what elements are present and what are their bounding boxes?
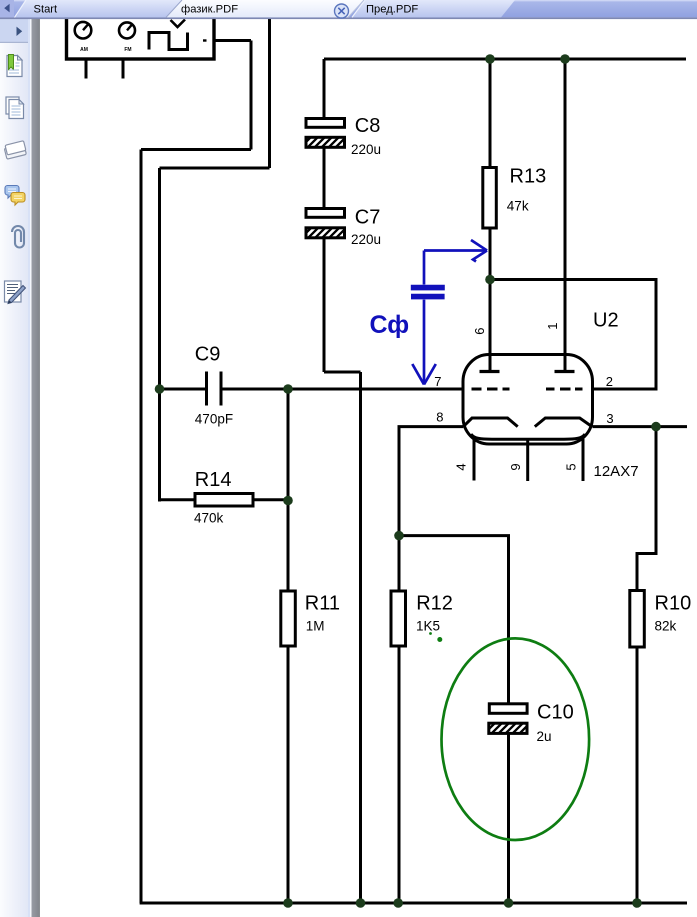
node rail-R10	[632, 898, 642, 908]
close button	[335, 4, 349, 18]
chevron mark	[171, 20, 186, 28]
wire R14 left	[160, 498, 196, 501]
wire R11 to rail	[287, 646, 290, 903]
svg-text:R11: R11	[305, 593, 340, 615]
plate bar triode B	[555, 370, 575, 373]
tube U2 envelope	[463, 355, 593, 445]
svg-text:220u: 220u	[351, 232, 381, 247]
svg-text:R12: R12	[416, 593, 453, 615]
node pin8-C10	[394, 531, 404, 541]
cathode triode B	[535, 418, 592, 427]
wire R12 to rail	[398, 646, 401, 903]
svg-text:8: 8	[436, 410, 443, 425]
blue capacitor plates	[411, 285, 445, 291]
resistor R11	[281, 591, 296, 646]
svg-text:2: 2	[606, 374, 613, 389]
node R13-pin6	[485, 275, 495, 285]
grid dashes triode A	[472, 388, 510, 391]
dash mark	[203, 39, 207, 41]
green ellipse annotation	[442, 638, 590, 840]
knob FM	[119, 22, 135, 38]
wire C9 left	[160, 388, 206, 391]
svg-text:9: 9	[508, 463, 523, 470]
svg-text:4: 4	[454, 463, 469, 470]
capacitor C7 plate top	[306, 209, 345, 218]
node pin3	[651, 422, 661, 432]
svg-text:фазик.PDF: фазик.PDF	[181, 4, 238, 16]
svg-text:C7: C7	[355, 206, 381, 228]
wire C8 to C7	[323, 148, 326, 209]
node rail-R13	[485, 54, 495, 64]
pin 3 wire	[593, 425, 688, 428]
svg-text:220u: 220u	[351, 142, 381, 157]
bottom rail	[140, 902, 687, 905]
icon pages	[6, 97, 24, 119]
svg-text:470pF: 470pF	[195, 412, 233, 427]
wire jog right	[324, 371, 361, 374]
pin 1 stem	[564, 59, 567, 370]
node rail-R12	[393, 898, 403, 908]
pin 8 wire	[399, 427, 463, 591]
wire C10 to rail	[507, 734, 510, 904]
resistor R12	[391, 591, 406, 646]
pin 6 stem	[489, 279, 492, 370]
capacitor C10 plate top	[489, 704, 527, 714]
svg-text:3: 3	[606, 411, 613, 426]
icon comments	[5, 186, 25, 206]
wire rail to R13	[489, 59, 492, 168]
svg-text:6: 6	[472, 327, 487, 334]
svg-text:R13: R13	[510, 165, 547, 187]
pin 9 lead	[526, 439, 529, 481]
icon paperclip	[12, 226, 24, 248]
green speck 2	[437, 637, 442, 642]
resistor R14	[195, 494, 253, 507]
node rail-C10	[504, 898, 514, 908]
node C9 right	[283, 384, 293, 394]
blue arrow to R13 node	[424, 249, 486, 252]
wire C7 down	[323, 238, 326, 372]
capacitor C10 plate hatched	[489, 723, 527, 733]
nav back button	[0, 0, 14, 17]
node rail-x360	[356, 898, 366, 908]
node C9 left	[155, 384, 165, 394]
svg-text:FM: FM	[124, 47, 131, 53]
wire pin3 to R10	[637, 427, 656, 591]
cathode triode A	[463, 418, 517, 427]
svg-text:R14: R14	[195, 469, 232, 491]
wire R14 right	[253, 498, 288, 501]
svg-text:1: 1	[545, 322, 560, 329]
node R14 right	[283, 496, 293, 506]
svg-text:1K5: 1K5	[416, 618, 440, 633]
wire box to corner	[214, 39, 251, 42]
svg-text:R10: R10	[655, 593, 692, 615]
wire rail to C8	[323, 59, 326, 119]
svg-text:470k: 470k	[194, 510, 224, 525]
svg-text:AM: AM	[80, 47, 88, 53]
svg-text:12AX7: 12AX7	[594, 463, 639, 480]
wire across y149.5	[141, 148, 251, 151]
svg-text:5: 5	[564, 463, 579, 470]
tab фазик.PDF active	[166, 0, 364, 17]
wire down x159.5	[158, 168, 161, 502]
tab Start	[15, 0, 185, 17]
blue wire down	[423, 251, 426, 285]
square-wave glyph	[149, 33, 188, 50]
svg-text:C10: C10	[537, 702, 574, 724]
wire node to C10	[399, 536, 509, 704]
U2 feedback wire	[490, 280, 656, 390]
resistor R13	[483, 168, 497, 229]
capacitor C9 plate 1	[205, 372, 208, 406]
svg-text:7: 7	[434, 374, 441, 389]
tuner box U?	[67, 0, 215, 59]
svg-text:Start: Start	[34, 4, 59, 16]
icon bookmarks	[7, 55, 22, 77]
wire R13 to node	[489, 228, 492, 279]
wire C9 to pin 7	[223, 388, 464, 391]
wire down x360.5	[359, 372, 362, 903]
svg-text:C9: C9	[195, 344, 221, 366]
capacitor C8 plate top	[306, 119, 345, 128]
node rail-pin1	[560, 54, 570, 64]
green speck 1	[429, 632, 432, 635]
plate bar triode A	[480, 370, 500, 373]
svg-text:C8: C8	[355, 115, 381, 137]
pin 5 lead	[582, 439, 585, 481]
node rail-R11	[283, 898, 293, 908]
knob AM	[75, 22, 92, 39]
stub wire right	[122, 59, 125, 79]
tab Пред.PDF	[352, 0, 515, 17]
blue annotation Сф	[411, 240, 487, 385]
wire down x269.5	[268, 19, 271, 168]
grid dashes triode B	[546, 388, 583, 391]
svg-text:82k: 82k	[655, 618, 677, 633]
heater line	[471, 434, 585, 439]
blue arrowhead down	[412, 364, 436, 385]
wire down x141	[140, 150, 143, 904]
svg-text:1M: 1M	[306, 618, 325, 633]
wire R10 to rail	[636, 647, 639, 903]
stub wire left	[85, 59, 88, 79]
capacitor C8 plate hatched	[306, 137, 345, 147]
capacitor C7 plate hatched	[306, 228, 345, 238]
blue wire to arrow	[423, 300, 426, 382]
svg-text:47k: 47k	[507, 198, 529, 213]
svg-text:Сф: Сф	[370, 311, 410, 339]
icon sign document	[5, 281, 26, 304]
svg-text:U2: U2	[593, 310, 619, 332]
wire down x288	[287, 389, 290, 591]
icon layers	[4, 141, 27, 160]
pin 4 lead	[473, 439, 476, 481]
wire down x251	[250, 41, 253, 150]
svg-text:Пред.PDF: Пред.PDF	[366, 4, 418, 16]
wire across y168	[160, 167, 270, 170]
resistor R10	[630, 591, 645, 648]
capacitor C9 plate 2	[220, 372, 223, 406]
svg-text:2u: 2u	[537, 729, 552, 744]
top rail	[324, 58, 686, 61]
